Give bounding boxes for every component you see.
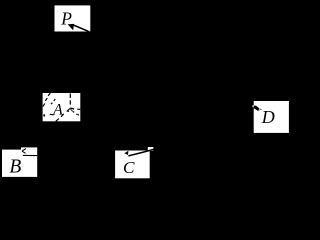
svg-text:B: B [9, 156, 21, 177]
box C [115, 151, 150, 179]
wire into B [23, 154, 37, 156]
box A [43, 93, 81, 121]
arrowhead in C [124, 151, 128, 155]
arrowhead at P [68, 24, 75, 30]
wire across C top [128, 149, 153, 156]
arrowhead in A [69, 108, 74, 112]
arrowhead into B [22, 149, 26, 154]
arrowhead notch at D [259, 109, 261, 110]
box B [2, 150, 37, 177]
dashed vertical wire P to A [69, 93, 71, 104]
wire halo above B [21, 147, 37, 149]
wire into P [74, 25, 90, 32]
box D [254, 101, 289, 133]
dashed wire A to D (right edge dash) [77, 108, 80, 110]
svg-text:D: D [261, 107, 275, 127]
wire halo into D [253, 105, 254, 107]
arrowhead at D [254, 105, 262, 110]
svg-text:C: C [123, 158, 135, 177]
dashed horizontal wire through A bottom [43, 114, 45, 116]
dashed wire B to A (lower-middle dashes) [56, 109, 70, 121]
box P [55, 5, 91, 31]
dashed wire B to P through A (lower-left dashes) [43, 93, 55, 106]
wire halo above C corner [148, 147, 154, 151]
